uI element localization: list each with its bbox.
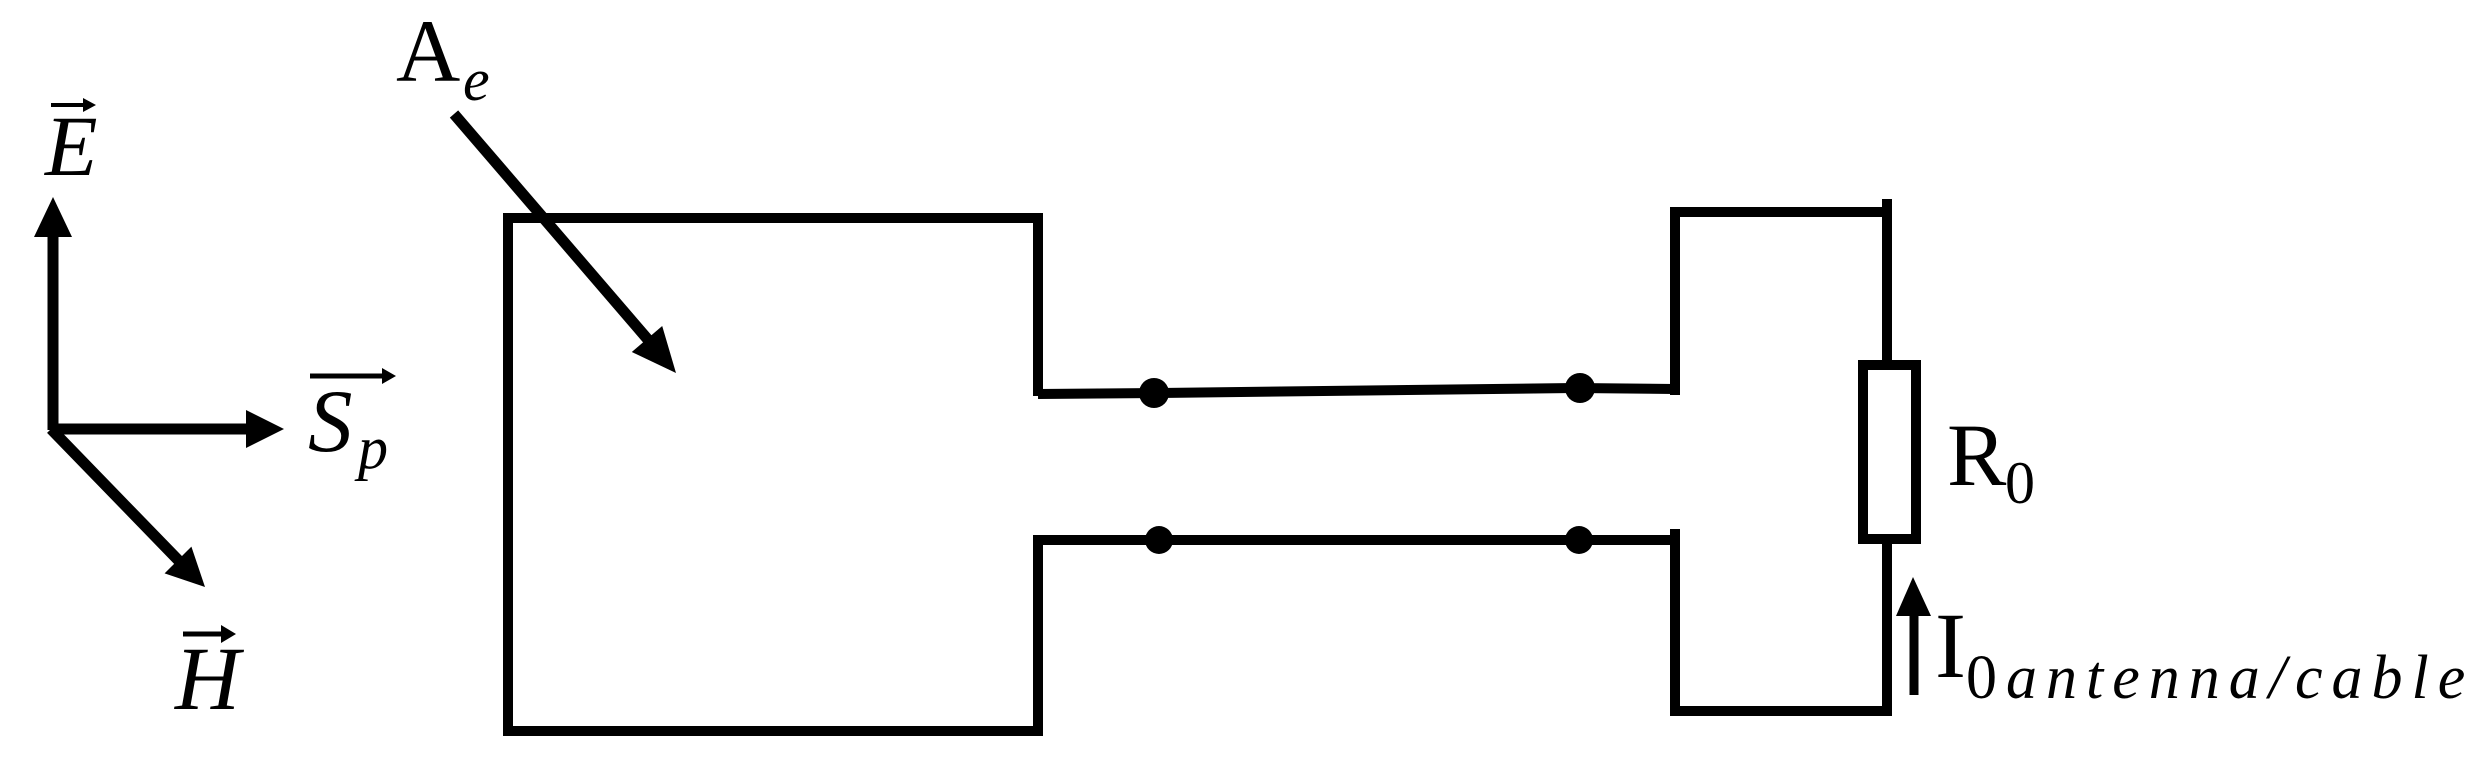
svg-text:H: H [174,630,245,729]
resistor R0 body [1863,365,1916,539]
antenna aperture box: bottom edge [503,726,1043,736]
Sp axis arrow (horizontal) [53,410,284,448]
wire: right vertical lower stub [1882,539,1892,716]
antenna aperture box: top edge [503,213,1043,223]
svg-text:0antenna/cable: 0antenna/cable [1966,644,2469,712]
antenna aperture box: right edge upper segment [1033,213,1043,396]
label R0 [1947,407,2035,516]
node dot: bottom-left junction [1145,526,1173,554]
svg-text:p: p [354,415,388,481]
wire: bottom conductor [1033,535,1675,545]
wire: right vertical upper stub [1882,199,1892,365]
vector label H [174,625,245,729]
H axis arrow (diagonal) [51,429,205,587]
svg-text:0: 0 [2005,450,2035,516]
node dot: top-right junction [1565,373,1595,403]
vector label E [43,98,98,194]
vector label Sp [308,368,396,481]
load box: top edge [1670,207,1892,217]
label I0 antenna/cable [1935,595,2469,712]
antenna aperture box: left edge [503,213,513,736]
svg-text:S: S [308,373,353,471]
current direction arrow I0 [1896,577,1931,695]
svg-text:R: R [1947,407,2007,505]
svg-text:I: I [1935,595,1966,698]
svg-text:e: e [463,47,490,113]
load box: left edge upper segment [1670,207,1680,395]
svg-text:A: A [396,3,460,101]
node dot: top-left junction [1139,378,1169,408]
load box: bottom edge [1670,706,1892,716]
load box: left edge lower segment [1670,529,1680,716]
wire: top conductor [1038,388,1675,394]
leader arrow from Ae into antenna box [454,114,676,373]
label Ae (effective aperture) [396,3,490,113]
svg-text:E: E [43,98,98,194]
antenna aperture box: right edge lower segment [1033,535,1043,736]
E-field axis arrow (vertical) [34,197,72,430]
node dot: bottom-right junction [1565,526,1593,554]
